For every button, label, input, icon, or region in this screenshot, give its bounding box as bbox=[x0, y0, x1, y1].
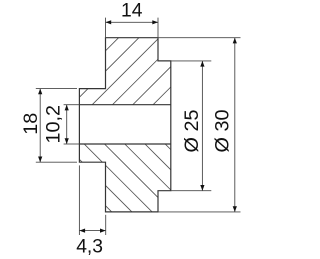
svg-text:Ø 30: Ø 30 bbox=[212, 110, 234, 153]
part outline (section of stepped pulley) bbox=[79, 38, 170, 212]
dimension 4,3: extension lines bbox=[78, 165, 80, 235]
dimension 14: dim line + arrows bbox=[106, 21, 159, 23]
svg-text:10,2: 10,2 bbox=[43, 105, 65, 144]
svg-text:18: 18 bbox=[20, 113, 42, 135]
hatching lower section bbox=[30, 130, 251, 230]
svg-text:Ø 25: Ø 25 bbox=[181, 110, 203, 153]
dimension 10,2: extension lines bbox=[64, 104, 80, 106]
dimension D30: extension lines bbox=[158, 37, 241, 39]
dimension D25: dim line + arrows bbox=[201, 61, 203, 191]
dimension 4,3: dim line + arrows bbox=[79, 230, 105, 232]
dimension 14: extension lines bbox=[105, 18, 107, 38]
svg-text:14: 14 bbox=[121, 1, 143, 22]
dimension D25: extension lines bbox=[171, 60, 212, 62]
dimension D30: dim line + arrows bbox=[234, 38, 236, 212]
dimension 18: extension lines bbox=[36, 88, 77, 90]
dimension 18: dim line + arrows bbox=[39, 89, 41, 163]
hatching upper section bbox=[0, 30, 248, 220]
bore bottom edge bbox=[79, 143, 170, 145]
bore top edge bbox=[79, 104, 170, 106]
svg-text:4,3: 4,3 bbox=[76, 236, 103, 257]
dimension 10,2: dim line + arrows bbox=[66, 105, 68, 144]
